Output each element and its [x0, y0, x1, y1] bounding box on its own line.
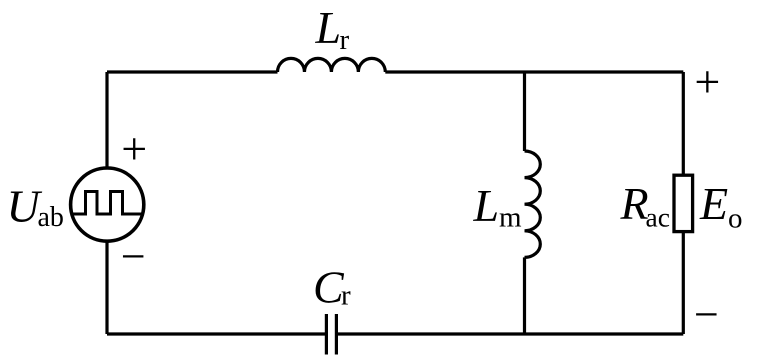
wire: top from inductor Lr to top-right corner	[385, 70, 683, 73]
inductor Lm (4 humps, vertical)	[525, 151, 541, 257]
svg-text:L: L	[473, 180, 500, 231]
inductor Lr (4 humps in top wire)	[278, 58, 386, 72]
wire: Lm branch upper (from top wire node down to inductor)	[523, 72, 526, 151]
svg-text:+: +	[121, 123, 147, 174]
svg-text:ac: ac	[646, 201, 670, 232]
svg-text:o: o	[728, 202, 743, 234]
capacitor Cr (two plates in bottom wire)	[326, 314, 336, 355]
wire: left branch lower (source - terminal down to bottom wire)	[105, 241, 108, 334]
wire: bottom-left from left branch to capacitor Cr	[107, 332, 326, 335]
svg-text:E: E	[699, 178, 728, 229]
wire: left branch upper (node A down to source + terminal)	[105, 72, 108, 169]
svg-text:−: −	[694, 290, 719, 339]
svg-text:r: r	[341, 280, 351, 312]
svg-text:r: r	[340, 24, 350, 56]
wire: right branch lower (resistor down to bottom-right corner)	[682, 232, 685, 334]
svg-text:+: +	[694, 56, 720, 107]
wire: Lm branch lower (from inductor down to bottom wire node)	[523, 257, 526, 334]
svg-text:ab: ab	[38, 202, 64, 233]
source Uab (square-wave voltage source circle)	[71, 168, 144, 241]
svg-text:R: R	[620, 178, 649, 229]
svg-text:−: −	[121, 232, 146, 281]
wire: right branch upper (top-right corner down to resistor)	[682, 72, 685, 175]
svg-text:m: m	[499, 201, 522, 233]
svg-text:L: L	[315, 2, 342, 53]
square wave symbol inside source	[71, 192, 143, 215]
wire: bottom from capacitor Cr to bottom-right corner	[336, 332, 683, 335]
wire: top-left from node A to inductor Lr	[107, 70, 278, 73]
resistor Rac (rectangle)	[674, 175, 693, 231]
